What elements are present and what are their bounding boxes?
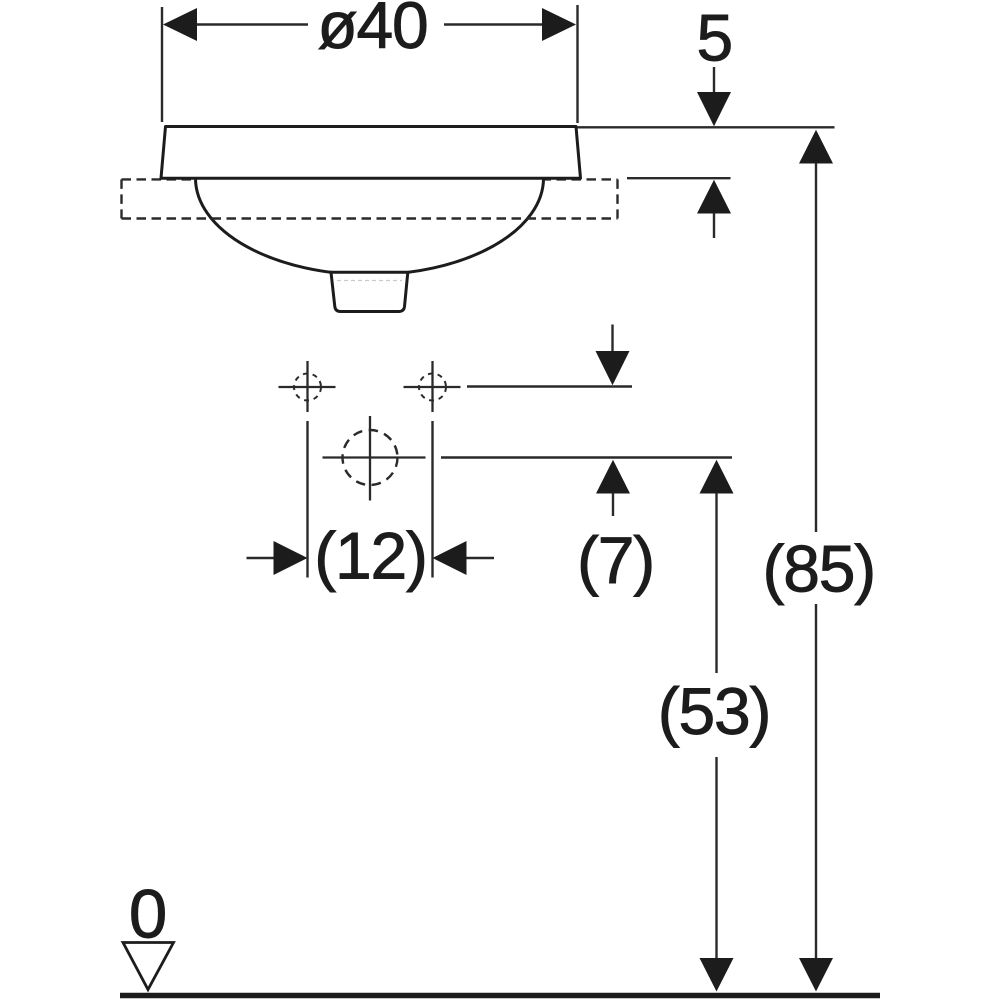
- svg-text:5: 5: [697, 1, 733, 75]
- svg-text:0: 0: [129, 876, 166, 953]
- svg-text:(85): (85): [763, 532, 876, 606]
- svg-text:(7): (7): [577, 523, 654, 597]
- svg-text:ø40: ø40: [317, 0, 427, 62]
- svg-text:(53): (53): [658, 674, 771, 748]
- svg-text:(12): (12): [314, 519, 427, 593]
